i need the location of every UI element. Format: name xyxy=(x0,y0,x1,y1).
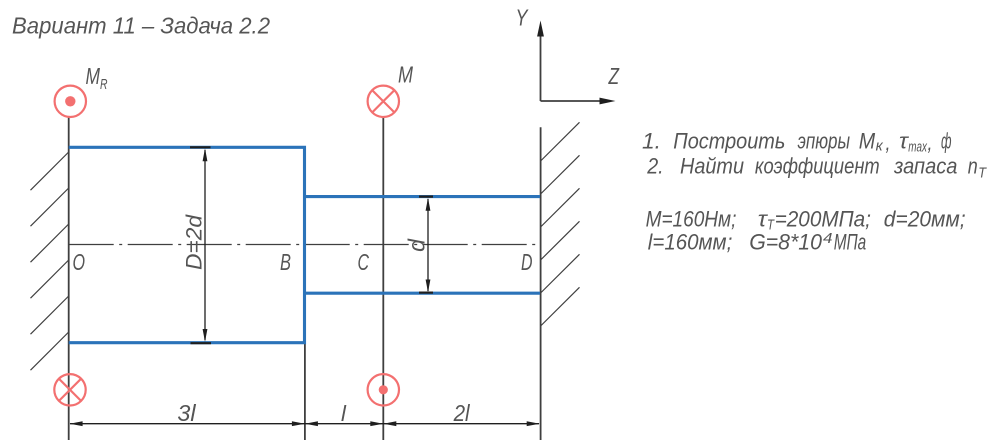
reaction symbol: circle with dot, bottom-middle xyxy=(368,374,399,405)
svg-text:Построить: Построить xyxy=(673,129,785,154)
svg-text:Z: Z xyxy=(608,63,620,89)
svg-text:к: к xyxy=(876,138,884,155)
svg-text:Найти: Найти xyxy=(680,154,744,179)
svg-text:Вариант 11 – Задача 2.: Вариант 11 – Задача 2.2 xyxy=(12,13,270,39)
dimension D=2d vertical line with arrows xyxy=(190,147,211,343)
svg-text:C: C xyxy=(358,249,370,275)
svg-text:2l: 2l xyxy=(453,400,471,426)
svg-text:M: M xyxy=(86,63,101,89)
svg-text:M=160Нм;: M=160Нм; xyxy=(646,207,737,232)
task line 2 xyxy=(646,154,987,182)
left wall line xyxy=(68,117,70,440)
dimension line 3l / l / 2l xyxy=(70,421,540,426)
shaft centerline (dash-dot) xyxy=(69,244,541,246)
svg-text:R: R xyxy=(100,76,108,93)
axis Y (vertical with arrow) xyxy=(537,21,544,102)
svg-text:=200МПа;: =200МПа; xyxy=(775,207,871,232)
task line 1 xyxy=(642,129,952,156)
axis Z (horizontal with arrow) xyxy=(541,98,616,105)
dimension d vertical line with arrows xyxy=(419,197,433,293)
svg-text:2.: 2. xyxy=(646,154,663,179)
svg-text:l=160мм;: l=160мм; xyxy=(648,230,733,255)
shaft section O-B (big, D=2d) blue outline xyxy=(69,146,305,344)
right wall hatching xyxy=(541,122,580,326)
svg-text:O: O xyxy=(73,249,86,275)
svg-text:эпюры: эпюры xyxy=(798,129,851,154)
svg-text:n: n xyxy=(968,154,978,179)
svg-text:G=8*10: G=8*10 xyxy=(749,230,823,255)
svg-text:Y: Y xyxy=(516,5,529,31)
svg-text:T: T xyxy=(978,165,987,182)
svg-text:МПа: МПа xyxy=(834,230,867,255)
svg-text:,: , xyxy=(886,130,891,155)
reaction symbol: circle with cross, bottom-left xyxy=(54,374,85,405)
data line 2 xyxy=(648,230,866,255)
svg-text:3l: 3l xyxy=(177,400,196,426)
svg-text:d=20мм;: d=20мм; xyxy=(884,207,966,232)
svg-text:4: 4 xyxy=(823,230,833,247)
left wall hatching xyxy=(31,152,69,370)
svg-text:1.: 1. xyxy=(642,129,661,154)
extension line below step B xyxy=(304,344,306,440)
svg-text:d: d xyxy=(404,238,430,252)
vertical line through M / section C xyxy=(382,117,384,440)
svg-text:M: M xyxy=(859,129,876,154)
svg-text:запаса: запаса xyxy=(893,154,957,179)
svg-text:M: M xyxy=(398,62,414,88)
svg-text:ф: ф xyxy=(941,129,952,154)
svg-text:B: B xyxy=(280,249,291,275)
svg-text:D: D xyxy=(521,249,533,275)
moment M_R symbol: circle with dot (out of page), top-left xyxy=(55,86,86,117)
svg-text:,: , xyxy=(928,130,933,155)
svg-text:l: l xyxy=(341,401,347,426)
shaft section B-D (small, d) blue outline xyxy=(306,197,540,294)
moment M symbol: circle with cross (into page), top-middle xyxy=(368,86,399,117)
right wall line xyxy=(540,127,542,440)
svg-text:D=2d: D=2d xyxy=(182,214,207,270)
svg-text:коэффициент: коэффициент xyxy=(755,154,880,179)
data line 1 xyxy=(646,207,966,234)
